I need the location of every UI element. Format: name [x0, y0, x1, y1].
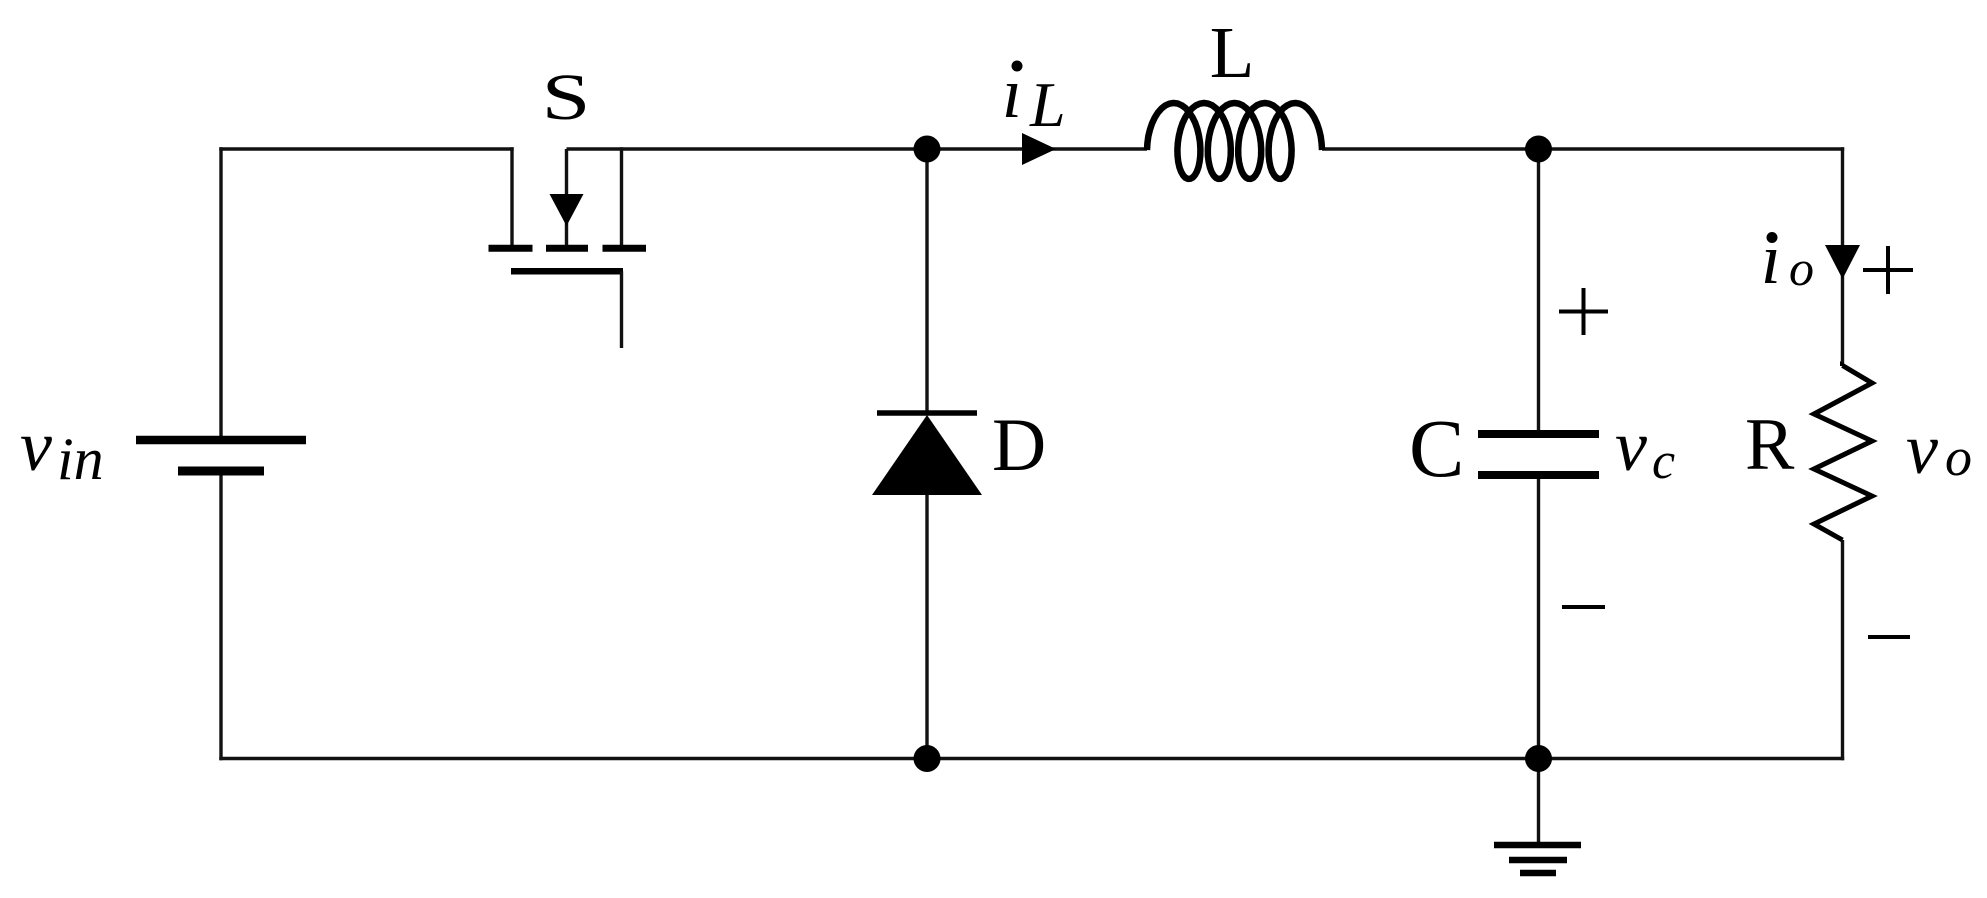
transistor S source lead [620, 147, 623, 245]
transistor S gate lead [620, 271, 623, 348]
svg-text:L: L [1210, 12, 1255, 93]
diode D cathode bar [877, 410, 977, 416]
node junction bottom capacitor [1525, 745, 1552, 772]
transistor S channel bar left [489, 245, 533, 252]
diode D triangle [872, 415, 982, 495]
wire capacitor branch upper [1537, 149, 1540, 431]
inductor L coil [1147, 103, 1322, 179]
output plus sign [1863, 246, 1913, 294]
ground bar 2 [1509, 857, 1567, 864]
wire left vertical lower [219, 471, 222, 760]
wire top-middle horizontal [567, 147, 1148, 150]
label S [542, 60, 591, 133]
output minus sign [1868, 635, 1910, 639]
wire diode branch upper [925, 149, 928, 414]
capacitor plus sign [1559, 288, 1608, 335]
svg-text:o: o [1789, 240, 1814, 296]
battery vin long plate [136, 436, 306, 445]
ground bar 3 [1520, 870, 1556, 877]
wire left vertical upper [219, 147, 222, 440]
svg-text:c: c [1652, 433, 1675, 490]
svg-text:C: C [1409, 402, 1464, 494]
wire diode branch lower [925, 494, 928, 759]
svg-text:o: o [1945, 427, 1972, 487]
svg-text:ı: ı [1761, 219, 1781, 299]
svg-text:v: v [20, 406, 52, 486]
battery vin short plate [178, 467, 264, 476]
svg-text:v: v [1615, 406, 1647, 486]
transistor S body lead [565, 149, 568, 245]
wire right vertical upper [1841, 147, 1844, 366]
transistor S gate bar [511, 268, 623, 275]
capacitor minus sign [1562, 605, 1605, 609]
svg-text:v: v [1906, 409, 1938, 489]
capacitor C bottom plate [1478, 471, 1599, 479]
svg-text:in: in [57, 426, 104, 492]
wire right vertical lower [1841, 540, 1844, 760]
wire bottom horizontal [219, 757, 1844, 760]
wire ground stem [1537, 759, 1540, 845]
resistor R zigzag [1814, 366, 1872, 541]
node junction top diode [914, 136, 941, 163]
transistor S channel bar middle [546, 245, 588, 252]
svg-text:S: S [542, 60, 591, 133]
wire top-left horizontal [219, 147, 513, 150]
transistor S body arrow [550, 194, 584, 226]
svg-text:D: D [992, 404, 1046, 487]
transistor S drain lead [510, 147, 513, 245]
node junction bottom diode [914, 745, 941, 772]
wire top-right horizontal [1322, 147, 1844, 150]
svg-text:L: L [1029, 69, 1066, 140]
current arrow iL [1022, 133, 1056, 165]
node junction top capacitor [1525, 136, 1552, 163]
wire capacitor branch lower [1537, 478, 1540, 759]
svg-text:R: R [1745, 404, 1795, 486]
capacitor C top plate [1478, 430, 1599, 438]
current arrow io [1825, 245, 1860, 279]
ground bar 1 [1494, 842, 1581, 849]
transistor S channel bar right [603, 245, 647, 252]
